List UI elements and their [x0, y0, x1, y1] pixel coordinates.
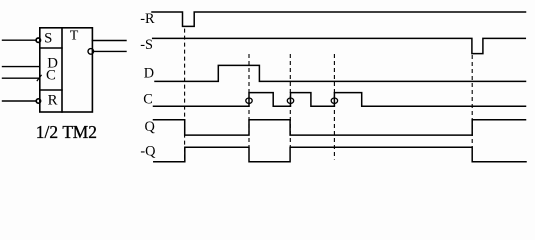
svg-text:S: S	[44, 31, 52, 47]
wire S input	[3, 39, 37, 41]
waveform D	[155, 65, 526, 81]
waveform C	[154, 93, 526, 107]
waveform Q	[154, 120, 526, 135]
wire -Q output	[94, 50, 126, 52]
svg-text:-S: -S	[140, 37, 153, 53]
svg-text:-R: -R	[140, 11, 155, 27]
timing guide dashed line at -R falling edge	[184, 29, 186, 161]
wire D input	[3, 66, 40, 68]
wire Q output	[92, 40, 126, 42]
timing guide dashed line at 1st clock edge	[248, 54, 250, 147]
svg-text:R: R	[48, 92, 58, 108]
timing guide dashed line at 2nd clock edge	[289, 54, 291, 147]
inversion bubble on -Q output	[88, 49, 94, 55]
inversion bubble on R	[36, 99, 40, 103]
svg-text:C: C	[143, 92, 153, 108]
timing guide dashed line at 3rd clock edge	[333, 54, 335, 160]
waveform -S	[153, 38, 526, 53]
clock edge marker ring 2	[287, 98, 293, 103]
svg-text:1/2 ТМ2: 1/2 ТМ2	[36, 122, 97, 142]
timing guide dashed line at -S falling edge	[471, 55, 473, 147]
U1 divider above R field	[40, 89, 62, 91]
U1 left-field divider	[61, 28, 63, 112]
waveform -R	[152, 12, 526, 26]
wire C input	[3, 77, 40, 79]
clock edge marker ring 3	[331, 98, 337, 103]
wire R input	[3, 100, 37, 102]
svg-text:C: C	[46, 67, 56, 83]
svg-text:D: D	[144, 65, 154, 81]
U1 divider under S field	[40, 47, 62, 49]
svg-text:Q: Q	[145, 119, 156, 135]
dynamic input slash on C	[37, 75, 41, 80]
svg-text:-Q: -Q	[140, 144, 156, 160]
waveform -Q	[154, 147, 526, 162]
svg-text:T: T	[70, 29, 79, 44]
clock edge marker ring 1	[246, 98, 252, 103]
inversion bubble on S	[36, 38, 40, 42]
D flip-flop U1 body	[40, 28, 93, 112]
